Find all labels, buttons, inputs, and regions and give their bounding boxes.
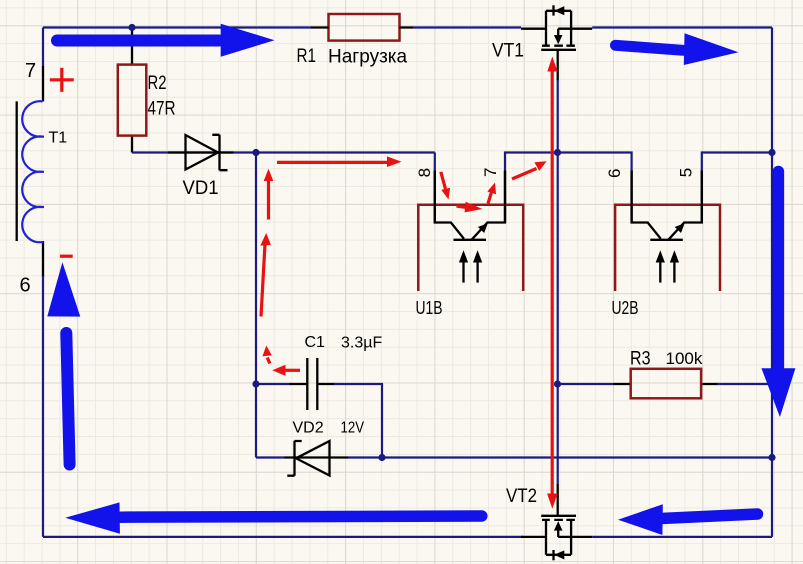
wire transformer pin 7 stub <box>42 66 44 101</box>
svg-text:6: 6 <box>20 275 31 297</box>
svg-text:VD1: VD1 <box>183 178 219 199</box>
svg-text:U1B: U1B <box>416 298 443 318</box>
polarity plus <box>50 68 74 92</box>
node junction R3 <box>554 380 561 387</box>
current flow arrow top-right <box>616 33 739 65</box>
wire transformer pin 6 stub <box>42 241 44 277</box>
wire row VD1 <box>132 151 435 153</box>
signal arrow small near C1 <box>263 346 272 364</box>
wire bottom rail left <box>43 536 523 538</box>
svg-text:R3: R3 <box>630 349 651 370</box>
svg-text:VT2: VT2 <box>506 486 537 507</box>
svg-text:VT1: VT1 <box>492 41 524 62</box>
signal arrow C1 left <box>272 365 300 376</box>
resistor R3 <box>631 369 701 399</box>
svg-text:C1: C1 <box>305 334 326 351</box>
wire top rail mid <box>413 26 521 28</box>
wire VD2 row <box>256 456 285 458</box>
diode VD1 <box>186 135 228 170</box>
wire top rail left <box>43 26 311 28</box>
wire top rail right <box>592 26 772 28</box>
wire pin5 to right edge <box>701 171 703 223</box>
svg-text:100k: 100k <box>666 349 703 368</box>
wire bottom rail right <box>592 536 772 538</box>
svg-text:6: 6 <box>605 169 624 178</box>
wire R2 top stub <box>131 28 133 65</box>
wire R1 stubs <box>311 26 413 28</box>
resistor R2 <box>118 65 147 136</box>
node junction VD2 right <box>378 454 385 461</box>
svg-text:VD2: VD2 <box>293 420 324 437</box>
signal arrow U1B base right <box>457 202 483 213</box>
wire VD1 stubs <box>168 151 234 153</box>
signal arrow gate column <box>547 57 557 509</box>
svg-text:T1: T1 <box>49 130 68 147</box>
svg-text:7: 7 <box>481 168 500 177</box>
signal arrow junction up <box>264 169 274 220</box>
svg-text:R1: R1 <box>297 46 317 67</box>
current flow arrow left-up <box>47 262 80 464</box>
current flow arrow top-left <box>57 24 275 57</box>
optocoupler U2B <box>615 171 720 292</box>
signal arrow U1B pin8 down <box>441 172 450 200</box>
wire gate column <box>557 50 559 81</box>
wire pin7 to pin6 <box>504 171 506 223</box>
node junction C1 <box>252 380 259 387</box>
svg-text:12V: 12V <box>341 420 365 437</box>
signal arrow horizontal right <box>277 156 402 167</box>
wire right vertical <box>771 28 773 537</box>
wire left vertical bottom <box>42 276 44 537</box>
current flow arrow bottom-left <box>65 502 482 533</box>
wire R3 row <box>558 383 615 385</box>
wire R2 bottom stub <box>131 136 133 153</box>
node junction R2/top rail <box>128 24 135 31</box>
wire C1 row <box>256 383 290 385</box>
transformer T1 winding <box>22 101 44 242</box>
svg-text:7: 7 <box>25 60 36 82</box>
node junction right bottom <box>768 454 775 461</box>
node junction VD1 <box>252 149 259 156</box>
svg-text:3.3µF: 3.3µF <box>341 335 382 352</box>
node junction gate <box>554 149 561 156</box>
wire left mid column <box>255 153 257 458</box>
zener diode VD2 <box>287 441 329 476</box>
node junction right top <box>768 149 775 156</box>
transistor VT1 <box>521 5 592 50</box>
wire pin8 drop <box>434 153 436 172</box>
signal arrow to gate junction <box>512 161 547 179</box>
svg-text:8: 8 <box>415 168 434 177</box>
polarity minus <box>60 255 73 258</box>
current flow arrow right-down <box>761 172 795 418</box>
svg-text:U2B: U2B <box>612 298 639 318</box>
signal arrow column up 2 <box>260 233 271 317</box>
transistor VT2 <box>521 516 592 561</box>
current flow arrow bottom-right <box>618 504 758 535</box>
signal arrow U1B emitter up <box>487 183 496 204</box>
svg-text:47R: 47R <box>148 99 176 120</box>
optocoupler U1B <box>418 171 523 292</box>
capacitor C1 <box>307 358 317 410</box>
transformer T1 core <box>16 101 18 241</box>
svg-text:Нагрузка: Нагрузка <box>328 46 408 67</box>
svg-text:R2: R2 <box>148 73 167 94</box>
svg-text:5: 5 <box>677 168 696 177</box>
resistor R1 <box>329 14 400 41</box>
wire left vertical top <box>42 28 44 68</box>
